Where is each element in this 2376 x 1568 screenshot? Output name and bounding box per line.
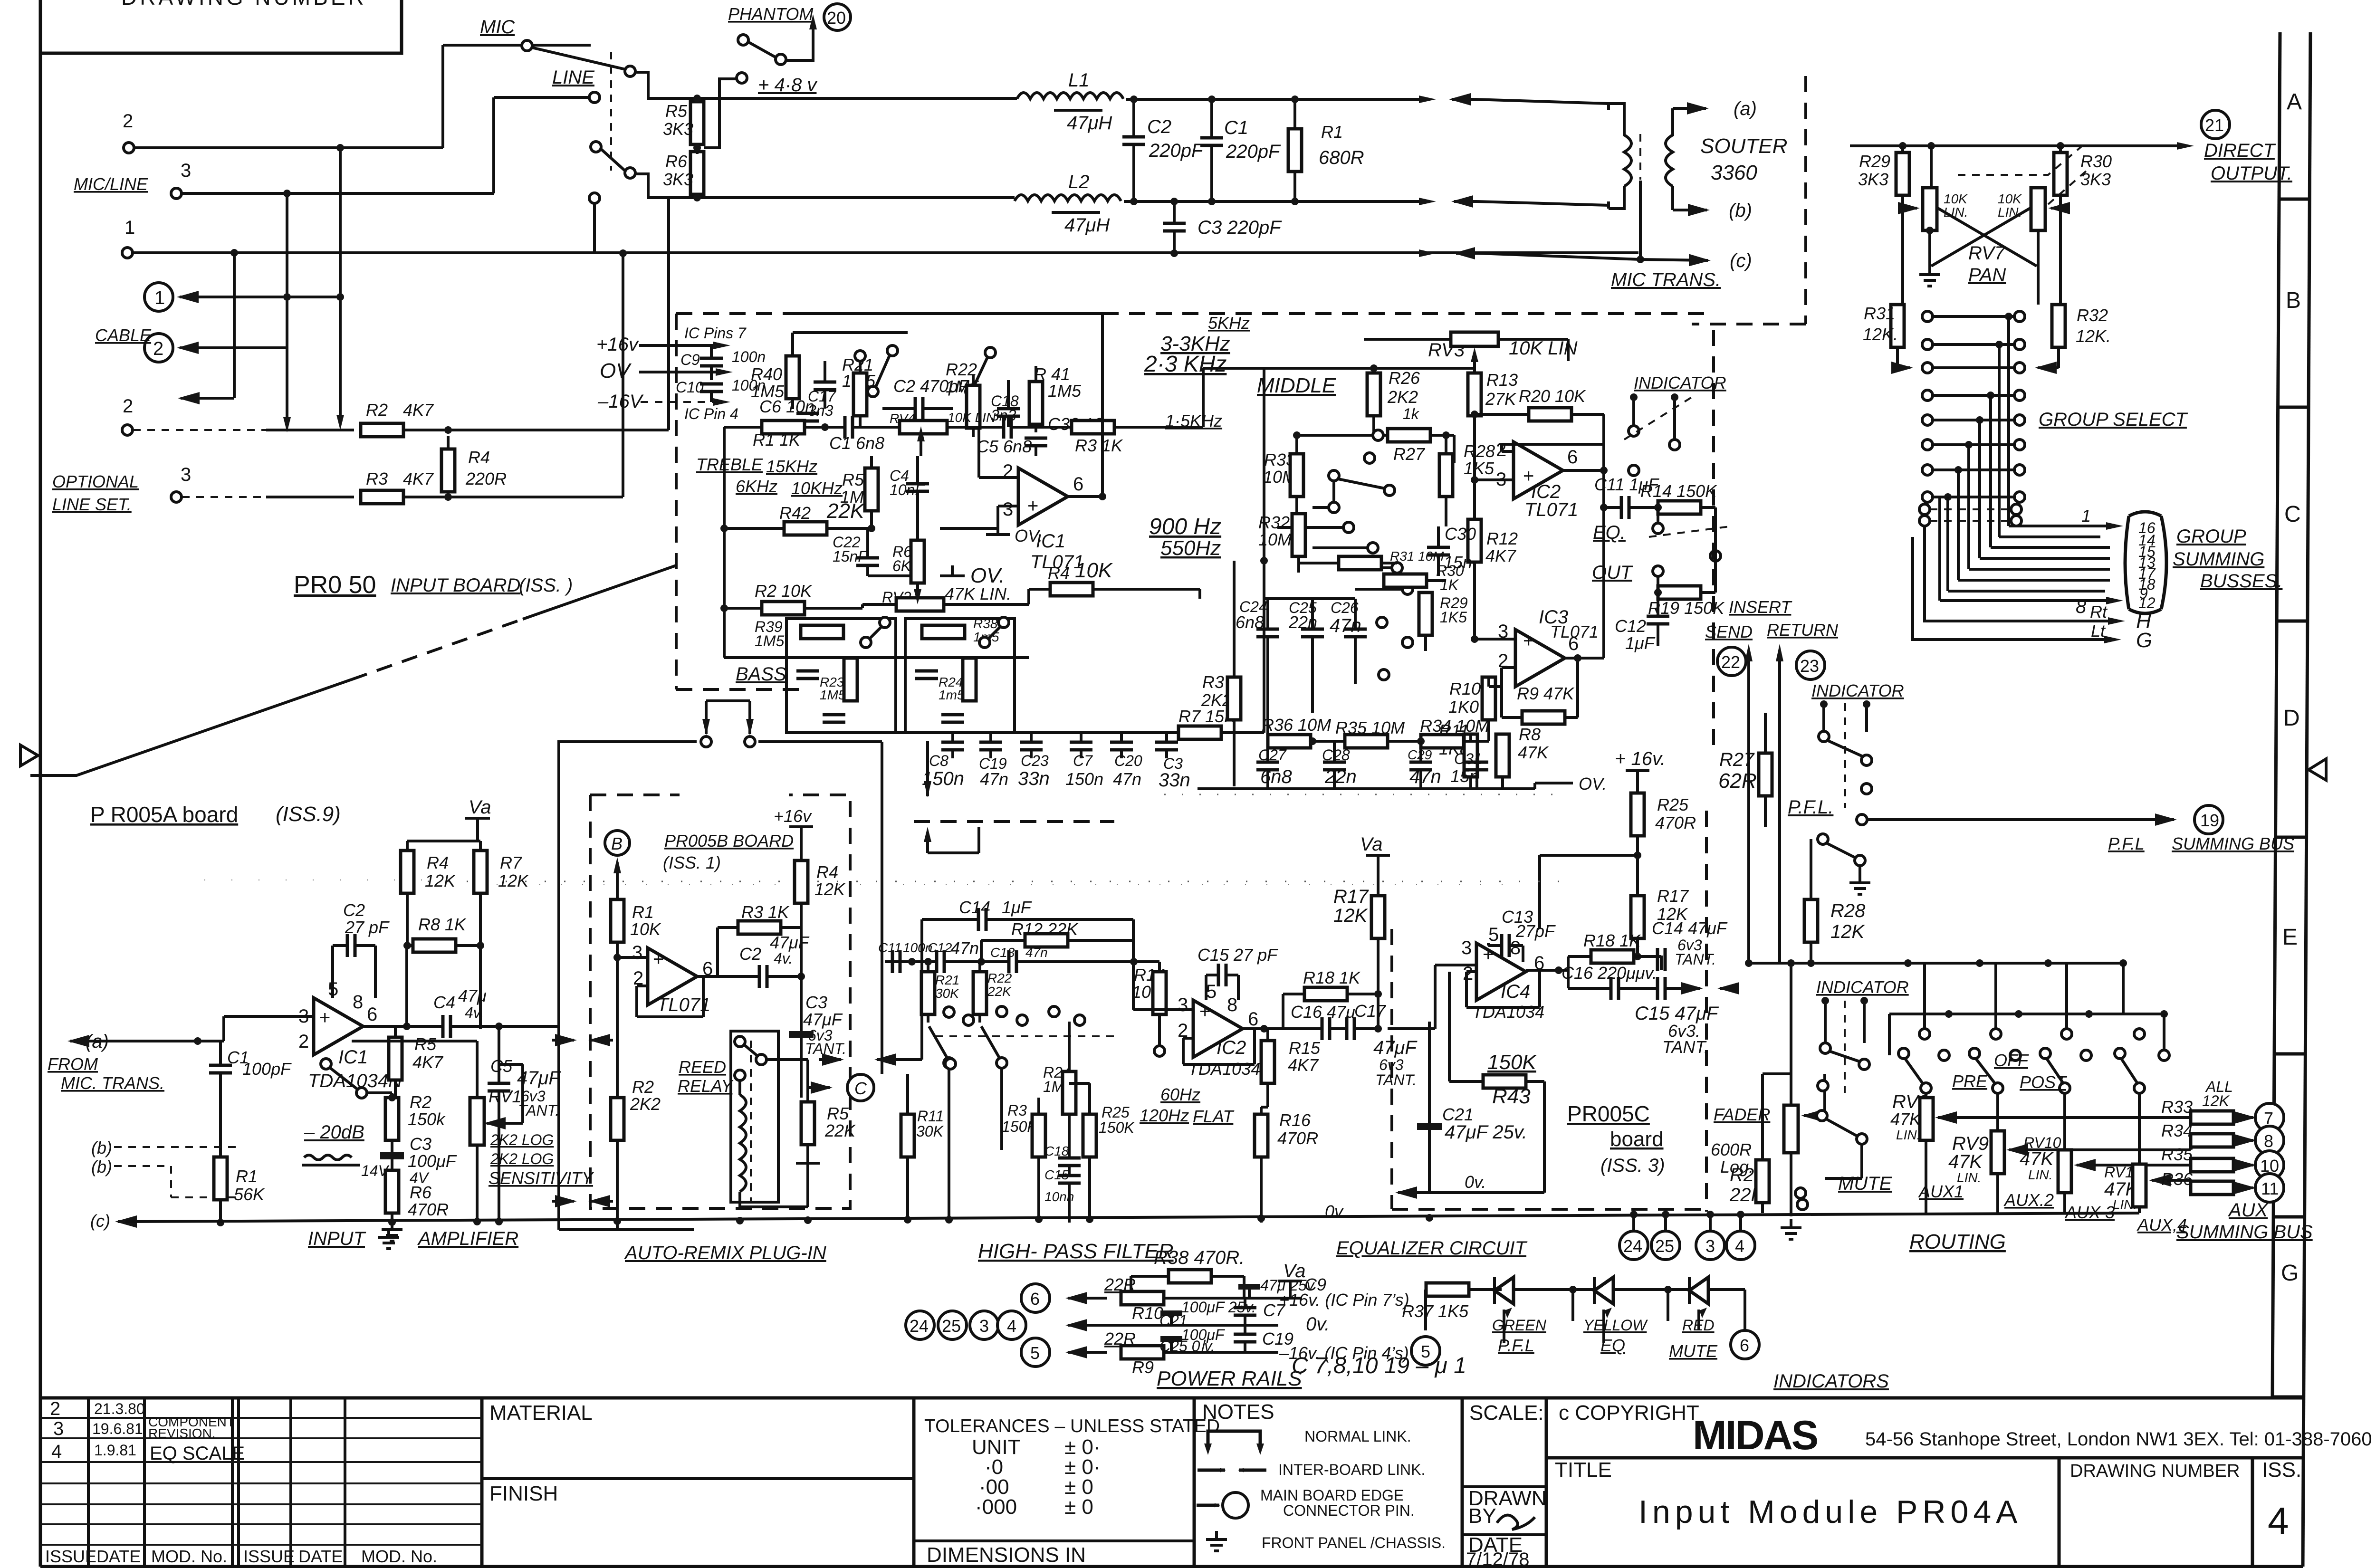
svg-text:47K: 47K [2020,1148,2054,1169]
20dB pad switch [321,1059,331,1069]
svg-text:R14 150K: R14 150K [1640,481,1717,501]
wire pan wiper drops [2037,230,2040,305]
svg-text:C: C [854,1079,867,1098]
svg-text:12K: 12K [814,880,846,899]
resistor R3 4K7 [361,490,403,504]
svg-text:R1: R1 [236,1166,258,1186]
capacitor C-bass1 [796,671,819,679]
wire centre tap to (c) [1640,259,1708,260]
svg-text:24: 24 [910,1316,929,1336]
svg-text:+16v: +16v [596,334,639,355]
wire phantom to node 20 [786,29,813,60]
capacitor C-bass2b [941,715,964,722]
svg-text:C1: C1 [1224,117,1248,138]
row 5 [1922,415,1933,425]
middle switches column [1329,470,1339,481]
link row dashed [914,820,1114,823]
svg-text:100μF: 100μF [408,1151,457,1171]
svg-text:R27: R27 [1719,749,1755,770]
node pin 1 input [122,248,133,258]
svg-text:AUX.2: AUX.2 [2003,1190,2054,1210]
resistor R4 220R [441,449,455,492]
svg-text:10K LIN: 10K LIN [948,410,996,425]
routing bus A [1889,1014,2164,1055]
svg-text:47μF: 47μF [1373,1037,1418,1058]
wire treble left rail [723,427,726,658]
svg-text:10M: 10M [1258,530,1292,549]
svg-text:2: 2 [298,1031,309,1052]
capacitor C1 220pF [1200,138,1223,145]
svg-text:D: D [2283,706,2300,731]
bass network 1 box [786,619,896,733]
wire pin2 to mic switch [134,45,591,297]
interboard arrows remix right [819,1058,841,1061]
routing group 3 [2040,1048,2050,1059]
svg-text:LINE SET.: LINE SET. [52,495,132,514]
top-left drawing-number box [40,0,402,53]
wire cable drop [233,253,236,398]
svg-text:R6: R6 [410,1183,432,1202]
svg-text:R6: R6 [665,152,688,171]
capacitor C8 [941,742,964,750]
transformer centre tap [1639,181,1642,259]
svg-text:BUSSES.: BUSSES. [2200,571,2282,592]
svg-text:MIDAS: MIDAS [1693,1413,1817,1458]
capacitor C15 47uF eq [1657,977,1665,1000]
svg-text:4K7: 4K7 [1485,546,1517,565]
optional input pin 3 [171,492,182,502]
svg-text:22K: 22K [987,984,1012,999]
svg-text:150n: 150n [1065,769,1103,789]
row 4 [1922,390,1933,401]
svg-text:3K3: 3K3 [663,170,693,189]
svg-text:3: 3 [181,160,191,181]
svg-text:RV7: RV7 [1968,243,2006,264]
svg-text:150K: 150K [1099,1119,1135,1136]
svg-text:IC1: IC1 [338,1047,368,1068]
svg-text:25: 25 [1655,1236,1674,1256]
svg-text:C8: C8 [929,752,948,769]
resistor R25 470R [1631,793,1644,836]
svg-text:INPUT BOARD: INPUT BOARD [391,575,520,596]
svg-text:R12: R12 [1486,529,1518,548]
svg-text:POST: POST [2020,1072,2068,1092]
svg-text:+: + [653,949,664,970]
svg-text:LIN.: LIN. [1944,205,1968,220]
svg-text:R13: R13 [1486,370,1518,390]
svg-text:INPUT: INPUT [308,1228,366,1249]
svg-text:R17: R17 [1333,886,1369,907]
interboard arrows into transformer [1452,98,1475,101]
capacitor C2 220pF [1122,137,1145,144]
svg-text:R18 1K: R18 1K [1303,968,1361,987]
RT H line [1925,526,2110,621]
svg-text:3: 3 [979,1316,989,1336]
svg-text:C23: C23 [1021,752,1049,769]
connector 19 [2194,805,2223,834]
svg-text:G: G [2136,629,2152,652]
svg-text:27pF: 27pF [1515,921,1556,941]
svg-text:YELLOW: YELLOW [1583,1317,1648,1334]
fader pot [1784,1105,1798,1153]
svg-text:2K2 LOG: 2K2 LOG [490,1131,554,1148]
svg-text:R29: R29 [1859,152,1890,171]
svg-text:R8: R8 [1519,725,1541,744]
op-amp IC1 TDA1034N [314,998,363,1055]
svg-text:LINE: LINE [552,67,595,88]
svg-text:1K0: 1K0 [1448,697,1479,717]
connector 23 [1796,651,1825,679]
svg-text:(c): (c) [1730,250,1752,271]
wire middle top rail [1264,368,1475,561]
node pin 3 input [171,188,182,199]
bass bottom rail [724,656,1029,659]
svg-text:LIN.: LIN. [1896,1128,1920,1142]
svg-text:550Hz: 550Hz [1160,536,1221,560]
svg-text:2: 2 [1463,963,1473,984]
capacitor C19 [979,742,1002,750]
svg-text:(c): (c) [90,1211,110,1231]
svg-text:ISSUE: ISSUE [45,1547,96,1566]
svg-text:R32: R32 [1258,513,1290,532]
svg-text:MUTE: MUTE [1669,1341,1718,1361]
svg-text:MAIN BOARD EDGE: MAIN BOARD EDGE [1260,1487,1404,1504]
svg-text:0v.: 0v. [1325,1202,1346,1221]
svg-text:+16v: +16v [774,806,812,826]
svg-text:(b): (b) [91,1157,112,1176]
capacitor C-bass2 [915,671,938,679]
svg-text:900 Hz: 900 Hz [1149,514,1221,539]
svg-text:3K3: 3K3 [663,119,693,139]
capacitor C21 power [1160,1310,1182,1316]
row 1 [1922,311,1933,322]
svg-text:+ 16v.: + 16v. [1615,748,1666,769]
resistor R2 4K7 [361,423,403,437]
svg-text:2·3 KHz: 2·3 KHz [1144,352,1226,377]
svg-text:B: B [611,834,623,853]
svg-text:4: 4 [2268,1500,2289,1542]
svg-text:4K7: 4K7 [403,469,434,488]
svg-text:12: 12 [2138,594,2156,612]
op-amp IC3 TL071 [1515,630,1565,687]
routing group 2 [1969,1048,1980,1059]
svg-text:P R005A board: P R005A board [90,802,238,827]
routing group 1 [1898,1048,1909,1059]
svg-text:2K2: 2K2 [1387,387,1418,407]
bass link arrow down [926,741,929,796]
svg-text:BASS: BASS [736,664,786,685]
svg-text:AUX: AUX [2228,1200,2269,1221]
svg-text:2K2 LOG: 2K2 LOG [490,1150,554,1167]
insert bus junction row [1749,962,2123,965]
svg-text:22K: 22K [826,499,865,523]
svg-text:OV: OV [600,359,632,382]
svg-text:R30: R30 [2080,152,2112,171]
RV4 wiper [920,440,922,456]
svg-text:47K: 47K [1518,743,1549,762]
svg-text:OV.: OV. [1579,774,1607,794]
svg-text:30K: 30K [916,1123,944,1140]
svg-text:(ISS. 1): (ISS. 1) [663,853,721,872]
svg-text:2K2: 2K2 [630,1094,661,1114]
diagonal separator line [30,679,352,775]
svg-text:5: 5 [1206,981,1217,1002]
svg-text:6: 6 [1248,1009,1258,1030]
svg-text:c COPYRIGHT: c COPYRIGHT [1559,1401,1699,1425]
svg-text:(ISS. 3): (ISS. 3) [1600,1155,1665,1176]
interboard arrows remix bottom [552,1200,574,1203]
wire EQ input to middle [1263,561,1265,733]
op-amp IC4 TDA1034 [1476,943,1526,1000]
ov stub below IC1 [986,528,1010,535]
svg-text:MIC. TRANS.: MIC. TRANS. [61,1073,164,1093]
svg-text:C12: C12 [928,940,952,955]
svg-text:R2: R2 [366,400,388,420]
svg-text:680R: 680R [1319,147,1364,168]
svg-text:C3: C3 [410,1134,431,1154]
wire R5 R6 stack [696,98,699,198]
svg-text:C17: C17 [1354,1001,1387,1021]
border frame bottom [40,1565,2303,1568]
svg-text:R3 1K: R3 1K [1075,436,1123,455]
capacitor C10 100n [700,384,723,392]
potentiometer RV7 right 10K LIN [2031,188,2045,230]
svg-text:1: 1 [125,217,135,238]
scan speckle band [428,881,1568,882]
svg-text:P.F.L.: P.F.L. [1788,797,1833,818]
wire hpf to eq [1388,965,1476,1029]
svg-text:C1 6n8: C1 6n8 [829,433,884,453]
svg-text:R38 470R.: R38 470R. [1154,1247,1245,1268]
svg-text:DIRECT: DIRECT [2204,140,2276,161]
svg-text:Va: Va [1360,834,1382,855]
svg-text:12K: 12K [425,871,456,890]
resistor R2 10K [762,602,805,615]
svg-text:Va: Va [469,797,491,818]
svg-text:8: 8 [2076,596,2087,617]
svg-text:C11: C11 [878,940,901,955]
connector 1 [144,283,173,311]
interboard arrows to fader [1687,987,1700,990]
svg-text:PR0 50: PR0 50 [294,571,376,599]
svg-text:6: 6 [367,1004,377,1025]
svg-text:1K5: 1K5 [1440,609,1467,626]
svg-text:Cا0 25v.: Cا0 25v. [1159,1338,1215,1355]
svg-text:3: 3 [181,464,191,485]
wire direct output bus [1850,144,2179,147]
svg-text:EQ.: EQ. [1593,522,1626,543]
svg-text:R35: R35 [2161,1145,2193,1164]
svg-text:1M5: 1M5 [755,632,784,650]
svg-text:2: 2 [153,338,163,359]
svg-text:B: B [2286,288,2301,313]
svg-text:6: 6 [1073,474,1083,495]
resistor R31 12K [1891,305,1904,347]
svg-text:1: 1 [2081,506,2091,526]
svg-text:100pF: 100pF [242,1059,292,1079]
svg-text:12K: 12K [1830,921,1865,942]
svg-text:120Hz: 120Hz [1140,1106,1189,1125]
resistor R23 1M5 [844,658,857,701]
svg-text:SOUTER: SOUTER [1700,134,1787,158]
svg-text:1μF: 1μF [1002,898,1032,917]
svg-text:47μH: 47μH [1064,215,1110,236]
svg-text:3: 3 [1178,994,1188,1015]
resistor R7 15K [1178,726,1221,739]
svg-text:FRONT PANEL /CHASSIS.: FRONT PANEL /CHASSIS. [1262,1534,1446,1551]
capacitor C3 220pF [1163,223,1186,231]
svg-text:TOLERANCES – UNLESS STATED: TOLERANCES – UNLESS STATED [924,1416,1220,1436]
svg-text:+ 4·8 v: + 4·8 v [758,75,817,96]
svg-text:(b): (b) [1729,200,1752,221]
svg-text:DATE: DATE [298,1547,343,1566]
svg-text:22: 22 [1721,652,1740,672]
resistor R6 3K3 [690,152,704,194]
svg-text:1M5: 1M5 [1048,381,1082,401]
svg-text:AUTO-REMIX PLUG-IN: AUTO-REMIX PLUG-IN [624,1243,826,1263]
svg-text:R18 1K: R18 1K [1583,931,1641,950]
svg-text:OPTIONAL: OPTIONAL [52,472,139,491]
svg-text:R15: R15 [1289,1038,1321,1058]
svg-text:R4: R4 [1048,563,1070,583]
svg-text:C2: C2 [1147,116,1171,137]
svg-text:PR005B BOARD: PR005B BOARD [664,831,794,851]
svg-text:21: 21 [2205,115,2224,135]
svg-text:21.3.80: 21.3.80 [94,1400,145,1417]
border frame right [2303,32,2310,1567]
svg-text:470R: 470R [1655,813,1696,832]
svg-text:R2: R2 [632,1077,654,1097]
svg-text:+: + [1027,496,1038,516]
svg-text:2: 2 [50,1398,60,1419]
send arrow line [1747,660,1750,963]
svg-text:5KHz: 5KHz [1208,313,1250,333]
capacitor C19 power [1234,1334,1256,1342]
wire RV2 to R4 10K line [1029,589,1102,604]
svg-text:R36 10M: R36 10M [1262,715,1331,735]
svg-text:8: 8 [1227,994,1237,1015]
svg-text:R34: R34 [2161,1121,2193,1140]
resistor R32 12K [2052,305,2065,347]
svg-text:3360: 3360 [1711,161,1757,184]
svg-text:R43: R43 [1492,1085,1531,1108]
svg-text:(a): (a) [1734,98,1757,119]
svg-text:27 pF: 27 pF [345,918,390,937]
svg-text:TANT.: TANT. [518,1102,559,1119]
svg-text:SUMMING: SUMMING [2173,549,2264,570]
hpf switch bank [944,1007,954,1017]
svg-text:DIMENSIONS IN: DIMENSIONS IN [927,1543,1086,1567]
svg-text:1M5: 1M5 [820,688,846,702]
svg-text:10K: 10K [1944,191,1968,206]
svg-text:7/12/78: 7/12/78 [1466,1549,1529,1568]
svg-text:23: 23 [1800,656,1819,676]
resistor R3 1K treble out [1072,421,1114,434]
-16 rail [1021,1338,1050,1367]
svg-text:220pF: 220pF [1149,140,1204,161]
svg-text:8: 8 [353,992,363,1013]
svg-text:4K7: 4K7 [1288,1055,1319,1075]
group bus verticals [1940,316,2009,601]
svg-text:19.6.81: 19.6.81 [92,1420,143,1437]
svg-text:E: E [2282,925,2298,950]
svg-text:C15 27 pF: C15 27 pF [1198,945,1278,965]
svg-text:R1: R1 [1321,122,1343,142]
svg-text:(ISS. ): (ISS. ) [519,575,573,596]
switches hpf lower [945,1059,956,1069]
board boundary dashed [1692,76,1806,324]
svg-text:47K LIN.: 47K LIN. [945,584,1011,603]
svg-text:AUX 3: AUX 3 [2064,1203,2115,1222]
svg-text:TL071: TL071 [1524,499,1578,520]
svg-text:R31: R31 [1864,304,1895,323]
capacitor C3b [1155,742,1178,750]
svg-text:R42: R42 [779,503,811,523]
svg-text:ISSUE: ISSUE [243,1547,295,1566]
sheet centre marker right [2309,759,2326,780]
resistor R19 150K [1658,586,1701,599]
svg-text:100n: 100n [732,348,766,365]
svg-text:R26: R26 [1389,368,1420,388]
svg-text:10K: 10K [1998,191,2022,206]
svg-text:0v.: 0v. [1306,1314,1330,1335]
resistor R1 680R [1288,129,1302,172]
svg-text:10K: 10K [630,919,661,939]
svg-text:Rt: Rt [2090,602,2108,621]
svg-text:1: 1 [154,287,165,308]
svg-text:IC2: IC2 [1217,1037,1246,1058]
svg-text:board: board [1610,1128,1664,1151]
svg-text:CABLE: CABLE [95,325,152,345]
capacitor C9 100n [700,358,723,366]
svg-text:R7: R7 [500,853,523,872]
svg-text:R28: R28 [1464,441,1495,461]
svg-text:GROUP: GROUP [2176,526,2246,547]
svg-text:150k: 150k [408,1109,446,1129]
resistor R30 1K [1384,574,1427,587]
svg-text:MOD. No.: MOD. No. [361,1547,437,1566]
svg-text:POWER RAILS: POWER RAILS [1157,1367,1302,1390]
svg-text:12K.: 12K. [2076,326,2111,346]
resistor R17 12K [1631,896,1644,938]
rail junction dots [388,1218,396,1226]
svg-text:56K: 56K [234,1185,265,1204]
row 6 [1922,440,1933,450]
treble switch 1 [868,386,878,397]
svg-text:R34 10M: R34 10M [1420,716,1489,736]
svg-text:R5: R5 [842,470,864,489]
svg-text:12K: 12K [498,871,529,890]
wire IC4 out [1526,969,1568,972]
svg-text:MOD. No.: MOD. No. [151,1547,227,1566]
wire treble out to middle [979,368,1264,427]
transformer core [1639,134,1641,180]
svg-text:R11: R11 [917,1108,944,1125]
svg-text:C 7,8,10 19 – μ 1: C 7,8,10 19 – μ 1 [1292,1353,1466,1378]
wire arrow to connector 1 [180,296,340,298]
switch gang dashed [610,52,612,171]
svg-text:220pF: 220pF [1226,141,1281,162]
main 0V rail [125,1213,2139,1222]
svg-text:Input Module PR04A: Input Module PR04A [1638,1494,2022,1530]
svg-text:CONNECTOR PIN.: CONNECTOR PIN. [1283,1502,1415,1519]
svg-text:INTER-BOARD LINK.: INTER-BOARD LINK. [1278,1461,1425,1478]
svg-text:4: 4 [1007,1316,1016,1336]
svg-text:25: 25 [942,1316,961,1336]
svg-text:47n: 47n [1113,769,1141,789]
svg-text:6: 6 [1030,1289,1040,1309]
svg-text:INDICATOR: INDICATOR [1816,977,1909,997]
